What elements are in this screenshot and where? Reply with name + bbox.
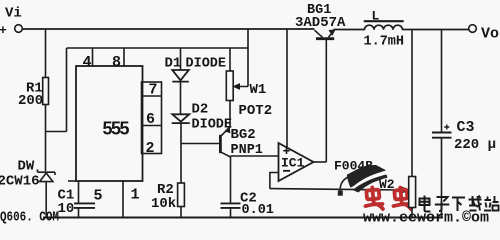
svg-text:BG2: BG2 [231, 127, 256, 143]
transistor BG2 base bar [219, 135, 222, 153]
svg-text:200: 200 [18, 93, 43, 109]
wire left rail upper [45, 29, 47, 78]
watermark red bug char 2 [392, 187, 411, 211]
watermark char xia [452, 198, 465, 212]
wire IC1 V+ from top rail [286, 29, 288, 148]
watermark red bug char 1 [364, 187, 383, 211]
resistor R2 [178, 183, 185, 207]
wire D1 anode from bus [180, 48, 182, 70]
wire W2 bottom to ground rail [411, 208, 413, 218]
wire left rail lower [45, 182, 47, 218]
transistor BG1 emitter diagonal [315, 30, 323, 37]
svg-text:1.7mH: 1.7mH [364, 35, 405, 50]
wire D1 to D2 [180, 82, 182, 115]
capacitor C1 [74, 203, 95, 208]
svg-text:D2: D2 [192, 102, 209, 118]
wire BG2 collector to IC1 plus input [231, 155, 279, 157]
watermark char zhan [484, 196, 499, 211]
capacitor C3 plus sign [444, 125, 449, 130]
wire IC1 output up to BG1 base [325, 40, 327, 163]
svg-text:W2: W2 [379, 177, 395, 192]
svg-text:POT2: POT2 [239, 103, 273, 119]
wire 555 bottom-left stub [68, 180, 76, 182]
op-amp 555 IC box [76, 66, 143, 181]
svg-text:D1: D1 [165, 56, 182, 72]
inductor L core line [364, 20, 404, 22]
arrow BG2 emitter (PNP into base) [225, 127, 229, 132]
resistor R1 [43, 78, 49, 105]
diode D1 [172, 70, 189, 82]
wire C2 to ground rail [230, 208, 232, 218]
svg-text:Vi: Vi [5, 6, 22, 22]
svg-text:www.eeworm.©om: www.eeworm.©om [363, 210, 489, 225]
wire left rail mid [45, 105, 47, 172]
zener diode DW [38, 169, 56, 181]
svg-text:W1: W1 [250, 82, 267, 98]
wiper arrow W2 [403, 187, 409, 192]
transistor BG1 collector diagonal [329, 31, 335, 38]
wire pin4 divider [92, 48, 94, 66]
wire D2 cathode down to R2 [180, 123, 182, 183]
wiper arrow W1 [234, 84, 240, 89]
svg-text:2: 2 [146, 140, 155, 157]
transistor BG2 collector diagonal [221, 152, 230, 157]
wire ground rail [43, 217, 443, 219]
wire pin1 lead to ground rail [122, 181, 124, 218]
svg-text:DIODE: DIODE [192, 118, 233, 133]
watermark graduation cap base [353, 175, 388, 193]
watermark cap tassel [340, 177, 348, 191]
svg-text:10k: 10k [151, 196, 176, 212]
inductor L coil arcs [365, 25, 403, 30]
svg-text:7: 7 [149, 82, 158, 99]
op-amp IC1 triangle [279, 143, 314, 181]
wire R2 to ground rail [180, 207, 182, 218]
wire stub left rail to 555 frame [46, 131, 67, 133]
svg-text:PNP1: PNP1 [231, 143, 263, 158]
wire pin6-2 divider [142, 125, 162, 127]
svg-text:6: 6 [146, 111, 155, 128]
capacitor C3 [432, 133, 452, 138]
wire W2 top feed from rail [411, 30, 413, 177]
op-amp IC1 minus input sign [283, 170, 290, 172]
transistor BG1 base bar [316, 37, 334, 40]
svg-text:DW: DW [18, 159, 35, 175]
wire pin8 divider [123, 48, 125, 66]
potentiometer W2 body [409, 177, 416, 208]
svg-text:Q606. COM: Q606. COM [0, 209, 59, 224]
watermark char zi [435, 197, 450, 211]
svg-text:555: 555 [103, 119, 130, 139]
diode D2 [172, 114, 190, 123]
wire supply bus over 555 [67, 47, 249, 49]
wire IC1 output [314, 161, 327, 163]
svg-text:220 μ: 220 μ [454, 137, 496, 153]
svg-text:DIODE: DIODE [186, 57, 227, 72]
svg-text:+: + [0, 23, 7, 38]
wire feedback to W2 wiper [270, 189, 404, 190]
wire top rail mid (BG1 collector to L) [334, 29, 366, 31]
svg-text:0.01: 0.01 [242, 203, 274, 218]
op-amp IC1 plus input sign [283, 148, 289, 154]
arrow BG1 collector [329, 30, 335, 35]
svg-text:4: 4 [83, 54, 92, 71]
watermark graduation cap board [347, 165, 386, 188]
node Vi terminal [15, 25, 23, 33]
watermark char dian [420, 196, 431, 212]
svg-text:8: 8 [112, 54, 121, 71]
capacitor C2 [221, 203, 241, 208]
node Vo terminal [469, 25, 477, 33]
svg-text:3AD57A: 3AD57A [295, 15, 346, 31]
wire 555 frame left edge [66, 48, 68, 132]
wire C1 to ground rail [78, 208, 80, 218]
svg-text:C3: C3 [457, 119, 475, 136]
watermark char zai [469, 196, 482, 211]
wire top rail right (L to Vo) [402, 29, 469, 31]
wire pin5 lead [78, 181, 80, 203]
wire pin7-6 divider [142, 95, 162, 97]
pin box column 7 6 2 [142, 82, 162, 154]
wire D2 cathode to BG2 base [181, 143, 220, 145]
svg-text:Vo: Vo [481, 26, 499, 43]
wire IC1 minus input stub [270, 173, 279, 189]
svg-text:5: 5 [94, 188, 103, 205]
wire W1 bottom to BG2 emitter [229, 101, 231, 127]
svg-text:IC1: IC1 [281, 156, 305, 171]
wire top rail left (Vi to BG1 emitter) [23, 28, 315, 30]
wire C3 top lead [441, 30, 443, 133]
transistor BG2 emitter diagonal [221, 127, 230, 136]
svg-text:L: L [372, 9, 380, 24]
wire C3 to ground rail [441, 138, 443, 218]
svg-text:10: 10 [58, 201, 75, 217]
wire W1 top feed from bus [229, 48, 231, 71]
wire C2 top lead [230, 156, 232, 203]
svg-text:1: 1 [131, 187, 140, 204]
svg-text:2CW16: 2CW16 [0, 174, 40, 190]
potentiometer W1 body [226, 71, 233, 101]
wire W1 wiper feed from rail [237, 29, 248, 87]
